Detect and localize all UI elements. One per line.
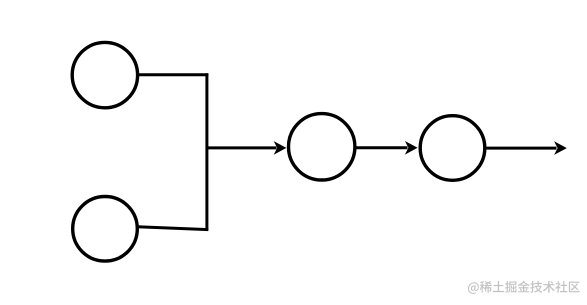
wire from top-left circle to junction corner	[138, 73, 209, 76]
wire vertical trunk	[205, 73, 208, 229]
arrow 3 shaft exiting right circle	[487, 147, 557, 150]
arrow 3 head	[554, 141, 567, 155]
arrow 2 head	[405, 141, 418, 155]
node circle middle	[289, 114, 355, 180]
arrow 2 shaft middle to right circle	[356, 146, 408, 149]
node circle right	[420, 116, 485, 181]
watermark text @稀土掘金技术社区	[468, 281, 580, 294]
arrow 1 shaft from trunk to middle circle	[207, 146, 277, 149]
node circle top-left	[72, 42, 137, 107]
node circle bottom-left	[73, 197, 138, 262]
wire from bottom-left circle to junction corner	[137, 227, 208, 230]
arrow 1 head	[274, 141, 287, 155]
